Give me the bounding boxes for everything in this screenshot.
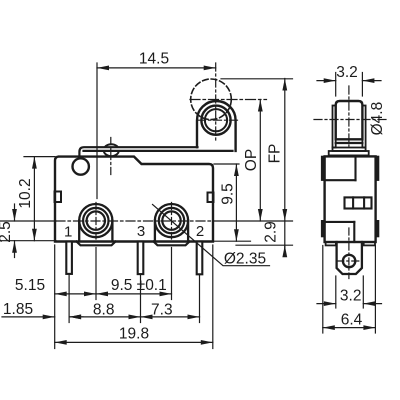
node mounting hole right bore: [162, 211, 180, 229]
node side bracket left plate: [333, 106, 336, 148]
wire extension line pin3: [140, 276, 142, 323]
dimension 5.15 line: [55, 293, 96, 295]
dimension 14.5: [97, 67, 216, 69]
node roller bracket: [197, 101, 236, 151]
node plunger centerline: [110, 138, 112, 178]
node hole left vertical centerline: [95, 203, 97, 240]
dimension side 6.4 extensions: [322, 246, 324, 334]
svg-text:19.8: 19.8: [119, 326, 149, 343]
node hole right vertical centerline: [171, 203, 173, 240]
wire extension line pin1: [68, 275, 70, 323]
svg-text:6.4: 6.4: [341, 311, 363, 328]
wire body bottom extension left: [0, 240, 56, 242]
switch body front view outline: [55, 157, 213, 242]
svg-text:9.5: 9.5: [219, 183, 236, 205]
switch body side view outline: [325, 156, 376, 242]
dimension OP line: [259, 100, 261, 222]
dimension side 3.2 bottom extensions: [335, 276, 337, 308]
wire FP extension line: [221, 78, 293, 80]
svg-text:1: 1: [64, 223, 72, 240]
svg-text:OP: OP: [243, 149, 260, 171]
node mounting hole right boss: [155, 204, 188, 237]
wire side lower slot horizontal: [325, 221, 355, 223]
wire lever bottom edge: [84, 147, 233, 150]
lever hinge circle: [73, 158, 89, 174]
dimension 19.8 line: [55, 341, 213, 343]
node right notch: [208, 193, 214, 203]
wire side lower slot vertical: [353, 222, 355, 242]
plunger button: [104, 144, 119, 156]
svg-text:2.9: 2.9: [263, 221, 280, 243]
dimension 7.3 line: [141, 316, 200, 318]
wire side inner step horizontal: [325, 179, 356, 181]
dimension side 6.4 line: [323, 327, 376, 329]
svg-text:Ø2.35: Ø2.35: [224, 250, 266, 267]
svg-text:8.8: 8.8: [93, 301, 115, 318]
wire extension body top left: [24, 156, 55, 158]
node side terminal plate: [337, 242, 362, 274]
node side bump right: [364, 242, 375, 245]
wire side roller base line: [336, 142, 363, 144]
svg-text:2.5: 2.5: [0, 221, 14, 243]
node dashed free-position circle: [191, 79, 232, 120]
node side pin block: [345, 197, 372, 208]
node side bump left: [326, 242, 336, 245]
wire extension line body right edge: [212, 245, 214, 349]
node side tab top right: [376, 156, 379, 180]
node mounting hole left boss: [79, 204, 112, 237]
dimension side 3.2 top arrows: [317, 80, 336, 82]
dimension side 3.2 top extensions: [335, 73, 337, 97]
wire bump bottom extension: [236, 244, 293, 246]
node mounting hole left bore: [87, 211, 105, 229]
node side bracket right plate: [362, 106, 365, 148]
node side terminal hole: [343, 255, 355, 267]
dimension 2.9 lower arrow: [284, 221, 286, 252]
node mounting bump right: [154, 242, 190, 246]
node side terminal vertical centerline: [348, 228, 350, 279]
wire extension line hole1 center: [95, 248, 97, 300]
node mounting bump left: [77, 242, 116, 246]
svg-text:7.3: 7.3: [151, 301, 173, 318]
dimension 2.5 line: [14, 204, 16, 221]
wire side inner step vertical: [354, 156, 356, 180]
wire OP extension line: [190, 99, 267, 101]
pin 1 terminal: [66, 242, 72, 274]
node roller horizontal centerline: [198, 119, 239, 121]
node side tab bottom left: [322, 221, 325, 237]
svg-text:10.2: 10.2: [17, 178, 34, 208]
node side tab bottom right: [376, 221, 379, 237]
svg-text:9.5 ±0.1: 9.5 ±0.1: [111, 277, 167, 294]
node mounting hole left ring: [83, 208, 108, 233]
node roller vertical centerline: [215, 63, 217, 142]
svg-text:FP: FP: [267, 144, 284, 164]
dimension 1.85 line: [2, 316, 55, 318]
wire extension line body left edge: [54, 245, 56, 349]
node side terminal horizontal centerline: [337, 260, 362, 262]
svg-text:5.15: 5.15: [15, 277, 45, 294]
node side roller horizontal centerline: [314, 119, 388, 121]
node side lever band: [333, 148, 366, 152]
dimension 10.2 line: [33, 157, 35, 241]
node side base band: [329, 151, 369, 155]
wire side pin block divider 1: [352, 197, 354, 208]
pin 2 terminal: [197, 242, 203, 275]
svg-text:Ø4.8: Ø4.8: [369, 102, 386, 136]
dimension side 3.2 bottom arrows: [317, 303, 336, 305]
node roller outer circle: [201, 106, 230, 135]
dimension FP line: [284, 79, 286, 222]
wire extension body top right step: [214, 163, 239, 165]
wire extension line hole2 center: [171, 248, 173, 300]
wire hole centerline holes front view: [0, 220, 56, 222]
dimension 9.5 vertical line: [235, 164, 237, 241]
dimension 9.5pm line: [96, 293, 172, 295]
wire body bottom extension right: [213, 240, 251, 242]
node side tab top left: [322, 156, 325, 180]
svg-text:14.5: 14.5: [139, 50, 169, 67]
wire lever top edge: [79, 147, 197, 157]
leader diameter 2.35: [153, 205, 270, 266]
wire extension line pin2: [199, 276, 201, 323]
svg-text:3.2: 3.2: [340, 287, 362, 304]
node mounting hole right ring: [159, 208, 184, 233]
svg-text:3: 3: [137, 223, 145, 240]
node roller inner circle: [205, 109, 227, 131]
wire extension line hole1 center top: [96, 63, 98, 199]
svg-text:1.85: 1.85: [3, 301, 33, 318]
wire side pin block divider 2: [363, 197, 365, 208]
pin 3 terminal: [138, 242, 144, 275]
node side roller vertical centerline: [348, 86, 350, 146]
dimension 8.8 line: [69, 316, 140, 318]
node left notch: [55, 192, 62, 203]
node side roller rect: [336, 101, 363, 139]
svg-text:2: 2: [196, 223, 204, 240]
svg-text:3.2: 3.2: [336, 64, 358, 81]
